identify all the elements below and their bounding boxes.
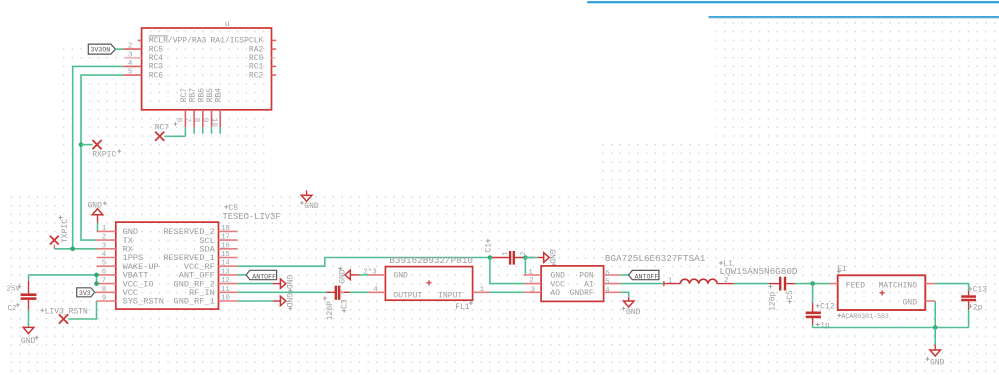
pin 14 VCC_RF [219,260,238,268]
junction C1 left [488,255,493,260]
bottom pin 8 RB6 [192,110,203,134]
svg-text:2: 2 [519,252,527,256]
svg-text:C1: C1 [484,243,493,253]
svg-text:PON: PON [579,272,594,281]
svg-text:GND: GND [284,275,293,290]
svg-text:8: 8 [192,118,200,123]
inductor L1 [664,279,734,286]
svg-text:C3: C3 [340,299,349,309]
name label C12 [816,302,835,311]
pin 2 TX [97,234,116,242]
svg-text:C5: C5 [786,290,795,300]
svg-text:C12: C12 [820,302,835,311]
pin 6 of BGA [604,270,621,278]
name label C1 rotated [484,239,493,253]
svg-text:GNDRF: GNDRF [570,289,594,298]
ground GND floating top middle [300,190,319,211]
junction VBATT [94,273,99,278]
pin 1 GND [97,225,116,233]
svg-text:120p: 120p [769,291,778,310]
svg-text:VCC: VCC [551,280,566,289]
svg-text:OUTPUT: OUTPUT [393,291,422,300]
svg-text:3V3: 3V3 [79,290,91,297]
svg-text:4: 4 [605,287,610,295]
ground GND below C2 [21,327,39,346]
pin 5 RC6 [123,69,141,77]
name label C5 cap [786,290,795,304]
svg-text:SYS_RSTN: SYS_RSTN [123,297,164,307]
3V3 supply flag [77,288,95,297]
unconnected X marker RC7 [155,132,164,141]
svg-text:RA2: RA2 [249,45,264,54]
svg-text:18: 18 [221,225,230,233]
svg-text:2: 2 [529,277,534,285]
pin 4 RC3 [123,60,141,68]
pin 18 RESERVED_2 [219,225,238,233]
ground GND at pin 12 [273,275,293,293]
wire C5 to E1 [795,283,830,285]
svg-text:GND: GND [284,293,293,308]
junction at C12 tap [810,281,815,286]
value label ACAR0301-S63 [837,313,889,320]
pin 2 RC5 [123,43,141,51]
pin 4 of BGA [604,287,621,295]
svg-text:11: 11 [221,286,231,294]
pin 9 SYS_RSTN [97,295,116,303]
grid dot field right band [716,20,999,375]
name label C2 [8,303,20,313]
wire E1 to C13 [935,284,968,291]
3V3ON supply flag [88,44,115,54]
svg-text:1: 1 [102,225,107,233]
svg-text:3: 3 [102,242,107,250]
value label 120p of C5 [768,285,777,311]
name label E1 [837,265,847,274]
svg-text:GND: GND [304,202,319,211]
svg-text:GND: GND [338,269,347,284]
svg-text:TXPIC: TXPIC [61,219,70,243]
svg-text:MATCHING: MATCHING [879,282,918,291]
svg-text:10: 10 [221,295,231,303]
svg-text:RXPIC: RXPIC [92,151,116,160]
origin cross E1 [880,290,885,295]
wire ANT_OFF to flag [237,274,246,276]
svg-text:FL1: FL1 [455,303,470,312]
antenna body E1 [838,275,926,310]
wire C3 to FL1 input [350,291,369,293]
svg-text:INPUT: INPUT [438,291,462,300]
wire RC3 to TESEO RX [73,66,124,248]
wire C2 to ground [28,310,30,328]
value label 1p [816,322,830,331]
svg-text:4: 4 [128,60,133,68]
ground GND above pin1 [88,201,107,222]
pin 3 of BGA [524,286,541,294]
pin 6 VBATT [97,268,116,276]
ground GND bottom right [926,345,945,368]
svg-text:7: 7 [102,277,107,285]
pin 1 of FL1 [473,286,490,294]
svg-text:9: 9 [102,295,107,303]
svg-text:RB6: RB6 [197,88,206,103]
wire GND to pin1 [97,223,99,232]
capacitor C3 [327,286,350,300]
svg-text:4: 4 [102,251,107,259]
name label L1 [719,260,733,269]
wire C1 right to ground [525,257,537,259]
pin name MCLR/VPP/RA3 with overline [149,36,207,46]
svg-text:14: 14 [221,260,231,268]
svg-text:5: 5 [605,278,610,286]
junction RXPIC [79,142,84,147]
net label LIV3_RSTN [40,307,88,316]
svg-text:RC7: RC7 [155,123,170,132]
pin FEED stub [830,283,838,285]
junction C1 right [523,255,528,260]
wire RX horizontal [54,248,98,250]
svg-text:10: 10 [209,118,217,128]
pin 10 GND_RF_1 [219,295,238,303]
capacitor C2 [21,275,37,310]
svg-text:LQW15AN5N6G80D: LQW15AN5N6G80D [719,266,798,277]
svg-text:ANTOFF: ANTOFF [635,273,659,280]
svg-text:GND: GND [903,298,918,307]
filter body FL1 [385,267,472,301]
pin 16 SDA [219,242,238,250]
name label C3 [340,299,349,313]
blue rule second [709,16,999,19]
bottom pin 10 RB4 [209,110,220,134]
svg-text:2: 2 [724,277,729,285]
svg-text:GND: GND [88,202,103,211]
svg-text:FEED: FEED [846,282,865,291]
svg-text:3: 3 [531,286,536,294]
svg-text:120P: 120P [326,301,335,320]
svg-text:1: 1 [528,269,533,277]
blue rule top [587,1,999,3]
svg-text:15: 15 [221,251,231,259]
svg-text:6: 6 [605,270,610,278]
LNA body BGA725 [541,266,604,302]
origin cross FL1 [426,280,431,285]
svg-text:BGA725L6E6327FTSA1: BGA725L6E6327FTSA1 [605,253,706,264]
svg-text:16: 16 [221,242,231,250]
svg-text:GND: GND [21,337,36,346]
svg-text:RC1: RC1 [249,63,264,72]
svg-text:1p: 1p [820,322,830,331]
net label RXPIC [92,149,121,159]
wire 3V3ON to pin2 [115,48,123,50]
wire FL1 out to BGA pin3 [490,291,525,293]
junction rail [933,325,938,330]
pin 13 ANT_OFF [219,268,238,276]
grid dot field left band [61,30,271,191]
svg-text:2: 2 [128,43,133,51]
pin 4 of FL1 [369,286,386,294]
ANTOFF flag at BGA [629,270,659,280]
wire RC7 net [164,135,185,137]
svg-text:RC6: RC6 [149,71,164,80]
svg-text:TESEO-LIV3F: TESEO-LIV3F [223,212,281,222]
svg-text:GND: GND [547,249,556,264]
wire GND_RF_1 [237,300,273,302]
bottom pin 9 RB5 [201,110,212,134]
wire junction to ground [934,328,936,345]
svg-text:4: 4 [373,286,378,294]
svg-text:RA1/ICSPCLK: RA1/ICSPCLK [210,37,263,46]
svg-text:RB5: RB5 [206,88,215,103]
pin 15 RESERVED_1 [219,251,238,259]
svg-text:GND: GND [393,271,408,280]
pin 3 RX [97,242,116,250]
wire VBATT to VCC_IO [96,275,98,284]
svg-text:12: 12 [221,277,230,285]
pin E1 GND stub [925,300,935,302]
wire GNDRF to ground [621,292,629,297]
svg-text:RC7: RC7 [180,88,189,103]
svg-text:2: 2 [102,234,107,242]
wire 3V3 to VCC [95,291,97,293]
ground GND at FL1 2*3 [338,267,359,284]
pin MCLR tick left [138,39,142,41]
pin 2 of BGA [524,277,541,285]
wire C1 left to BGA VCC [490,258,524,284]
IC body TESEO [116,222,219,309]
svg-text:RB4: RB4 [215,88,224,103]
junction VCC_IO [94,281,99,286]
wire GND_RF_2 [237,283,273,285]
ground GND below BGA pin4 [622,297,641,317]
wire L1 to C5 [734,283,769,285]
label stub TXPIC [53,245,55,249]
pin 5 WAKE-UP [97,260,116,268]
wire E1 GND down to rail [934,301,936,328]
pin 4 1PPS [97,251,116,259]
svg-text:AI: AI [584,280,594,289]
wire AI to L1 [621,283,664,285]
svg-text:1: 1 [480,286,485,294]
wire ground rail bottom [813,327,969,329]
svg-text:RC5: RC5 [149,45,164,54]
X marker RXPIC [92,140,101,149]
value label 2p [968,303,982,312]
svg-text:3: 3 [128,51,133,59]
ANTOFF flag at TESEO [246,270,277,280]
svg-text:2p: 2p [973,303,983,312]
svg-text:GND_RF_1: GND_RF_1 [174,297,215,307]
svg-text:17: 17 [221,234,230,242]
ground GND right of C1 [538,249,557,267]
svg-text:GND: GND [626,308,641,317]
svg-text:AO: AO [551,289,561,298]
pin 7 VCC_IO [97,277,116,285]
right pin names [163,227,215,307]
ground GND at pin 10 [273,293,293,310]
svg-text:C2: C2 [8,305,17,313]
svg-text:8: 8 [102,286,107,294]
pin 3 RC4 [124,51,141,59]
IC body u [142,28,272,110]
pin 8 VCC [97,286,116,294]
svg-text:RB7: RB7 [189,88,198,103]
wire VBATT rail from C2 [29,274,97,276]
wire RC6 to TESEO TX [81,75,123,240]
svg-text:5: 5 [102,260,107,268]
svg-text:RC2: RC2 [249,71,264,80]
pin 2*3 of FL1 [363,268,385,276]
svg-text:B39162B932/P810: B39162B932/P810 [389,255,473,266]
wire C1 right to BGA pin1 [524,258,526,276]
svg-text:6: 6 [102,268,107,276]
wire RXPIC stub [81,144,93,146]
svg-text:GND: GND [930,358,945,367]
svg-text:RC3: RC3 [149,63,164,72]
capacitor C12 shunt [806,284,821,328]
X marker LIV3_RSTN [59,314,68,323]
value label 25V [7,284,22,293]
junction RX [70,247,75,252]
name label FL1 [455,301,473,312]
svg-text:ANTOFF: ANTOFF [252,273,276,280]
svg-text:9: 9 [201,118,209,123]
svg-text:3V3ON: 3V3ON [90,47,110,54]
name label C5 [224,204,238,213]
svg-text:1: 1 [668,278,673,286]
X marker TXPIC [50,236,59,245]
wire VCC_RF rail [237,258,490,267]
grid dot field middle band [602,141,716,375]
svg-text:25V: 25V [7,286,21,294]
bottom pin 6 RC7 [175,110,186,137]
svg-text:MCLR/VPP/RA3: MCLR/VPP/RA3 [149,37,207,46]
capacitor C1 [490,251,534,265]
pin 1 of BGA [523,269,541,277]
capacitor C5 series [769,277,795,291]
pin 17 SCL [219,234,238,242]
svg-text:ACAR0301-S63: ACAR0301-S63 [841,313,889,320]
pin 5 of BGA [604,278,621,286]
grid dot field lower main area [4,191,602,375]
bottom pin 7 RB7 [183,110,194,134]
pin 11 RF_IN [219,286,238,294]
wire C13 down to rail [968,310,970,328]
right side pin ticks [272,40,277,75]
capacitor C13 shunt [961,291,976,310]
wire RF_IN to C3 [237,291,326,293]
svg-text:5: 5 [128,69,133,77]
svg-text:7: 7 [183,118,191,123]
name label C13 [968,286,987,295]
pin 12 GND_RF_2 [219,277,238,285]
pin E1 right top stub [925,283,935,285]
svg-text:13: 13 [221,268,231,276]
wire SYS_RSTN [68,301,96,319]
svg-text:GND: GND [551,272,566,281]
net label TXPIC rotated [59,216,70,244]
left pin names [123,227,164,307]
wire PON to ANTOFF flag [621,274,629,276]
value label 120P of C3 [323,296,335,320]
svg-text:1: 1 [502,252,510,256]
net label RC7 [155,122,178,132]
wire 2*3 to ground [359,274,368,276]
svg-text:C13: C13 [973,286,988,295]
